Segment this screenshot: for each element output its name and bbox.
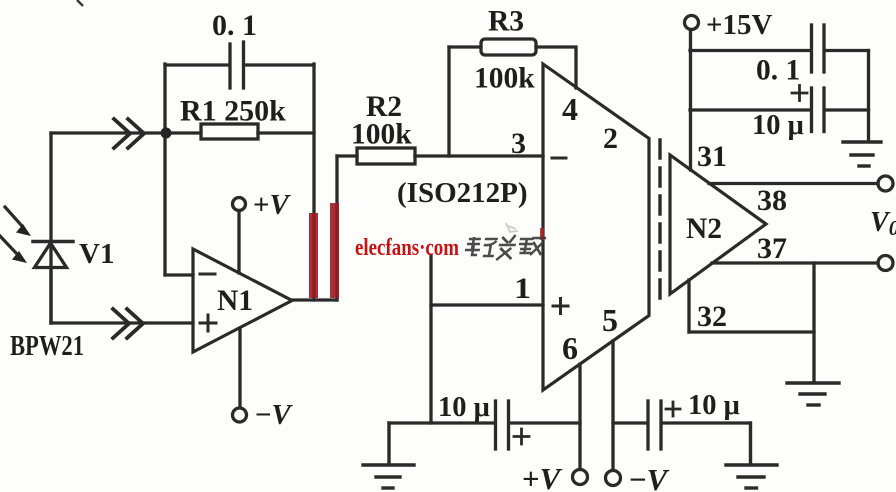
N1 plus sign — [200, 315, 216, 331]
wire: R2 right lead to ISO pin3 node — [415, 154, 543, 157]
cable chevrons on top input wire — [114, 119, 144, 148]
wire: decoupling ground riser — [867, 51, 870, 142]
svg-text:V0: V0 — [870, 207, 896, 240]
isolation amp output-side triangle N2 — [670, 155, 766, 294]
watermark red bar left — [309, 213, 318, 298]
svg-text:elecfans·com: elecfans·com — [355, 235, 459, 261]
wire: R1 right lead — [258, 131, 314, 134]
svg-text:10 μ: 10 μ — [688, 390, 740, 421]
svg-text:3: 3 — [511, 127, 526, 160]
ground symbol (input common) — [363, 423, 414, 488]
svg-text:BPW21: BPW21 — [10, 331, 84, 362]
wire: feedback loop top right segment — [244, 63, 314, 66]
scan speck top left — [77, 0, 83, 6]
capacitor C2 10u plates (left bottom) — [496, 401, 509, 449]
wire: feedback loop top left segment — [165, 63, 229, 66]
photodiode V1 triangle — [35, 243, 67, 268]
wire: inverting input horizontal — [165, 273, 193, 276]
capacitor C4 0.1 plates — [812, 25, 825, 72]
wire: +15V rail to C4 — [690, 49, 811, 52]
svg-text:38: 38 — [757, 184, 787, 217]
svg-text:V1: V1 — [79, 238, 114, 270]
resistor R1 body — [201, 124, 258, 139]
wire: R3 left vertical — [447, 47, 450, 156]
wire: loop left vertical to N1 inverting input — [163, 64, 166, 275]
ground symbol (output common) — [787, 383, 839, 405]
svg-text:R1 250k: R1 250k — [180, 95, 286, 128]
wire: output riser up to R2 — [335, 156, 338, 300]
light arrow 1 into V1 — [5, 207, 31, 236]
wire: R3 right vertical to ISO pin4 — [574, 49, 577, 88]
svg-text:6: 6 — [562, 330, 578, 366]
wire: R1 left lead — [166, 131, 201, 134]
terminal +V (ISO input side) — [573, 470, 588, 485]
svg-text:10 μ: 10 μ — [438, 392, 490, 423]
svg-text:N2: N2 — [686, 213, 722, 245]
light arrow 2 into V1 — [0, 236, 27, 263]
resistor R2 body — [357, 148, 415, 164]
terminal -V of N1 — [233, 408, 247, 422]
terminal output top — [878, 176, 893, 191]
wire: R2 left lead — [337, 154, 357, 157]
svg-text:−V: −V — [255, 399, 294, 431]
wire: pin32 horizontal — [689, 330, 814, 333]
wire: N1 bottom edge to -V — [238, 328, 241, 408]
svg-text:+V: +V — [253, 189, 292, 221]
wire: N1 output horizontal — [292, 298, 337, 301]
node junction dot at inverting input — [161, 128, 172, 139]
wire: left vertical down through photodiode — [49, 133, 52, 323]
wire: pin32 vertical from N2 bottom edge — [687, 280, 690, 332]
svg-text:5: 5 — [602, 302, 618, 338]
capacitor C3 10u plates (right bottom) — [648, 401, 661, 449]
wire: R3 right lead — [536, 45, 576, 48]
wire: pin6 vertical to +V terminal — [578, 364, 581, 469]
wire: C2 right plate to pin6 node — [509, 421, 580, 424]
wire: C4 right plate to ground riser — [826, 49, 869, 52]
wire: pin5 vertical to -V terminal — [611, 341, 614, 470]
photodiode V1 cathode bar — [33, 240, 73, 244]
wire: R3 left lead — [449, 45, 481, 48]
wire: pin1 ground branch vertical — [429, 256, 432, 423]
svg-text:N1: N1 — [217, 285, 253, 317]
terminal +15V — [685, 16, 699, 30]
svg-text:+V: +V — [522, 461, 563, 492]
svg-text:100k: 100k — [474, 63, 535, 95]
wire: to N1 non-inverting input — [51, 321, 193, 324]
capacitor C5 10u plates — [812, 88, 825, 132]
cable chevrons on bottom input wire — [113, 309, 143, 338]
svg-text:2: 2 — [603, 122, 618, 155]
wire: +V to N1 top edge — [237, 211, 240, 274]
C2 polarity plus — [514, 429, 529, 444]
svg-text:32: 32 — [697, 300, 727, 333]
ground symbol (decoupling) — [843, 142, 881, 166]
wire: input wire from photodiode cathode branch — [51, 131, 161, 134]
svg-text:R3: R3 — [488, 6, 524, 38]
wire: photodiode anode down — [49, 268, 52, 323]
svg-text:0. 1: 0. 1 — [756, 55, 800, 87]
svg-text:10 μ: 10 μ — [752, 110, 804, 141]
watermark gray smudge — [506, 223, 518, 232]
resistor R3 body — [481, 39, 536, 55]
ground symbol (C3) — [726, 423, 777, 488]
C3 polarity plus — [666, 402, 680, 416]
U1 plus sign — [553, 299, 568, 314]
svg-text:4: 4 — [562, 91, 578, 127]
terminal +V of N1 — [233, 198, 246, 211]
svg-text:0. 1: 0. 1 — [212, 9, 257, 42]
wire: pin37 ground riser — [812, 263, 815, 381]
capacitor C1 0.1 plates — [230, 42, 244, 88]
isolation amp U1 ISO212P input-side body — [543, 64, 649, 390]
svg-text:+15V: +15V — [706, 9, 773, 41]
terminal output bottom — [878, 256, 893, 271]
wire: C5 right plate to ground riser — [826, 108, 869, 111]
watermark chinese characters — [463, 235, 546, 260]
wire: pin37 to terminal — [712, 261, 878, 264]
wire: loop right vertical to N1 output — [312, 64, 315, 300]
wire: pin1 horizontal — [431, 303, 543, 306]
isolation barrier dashed line — [658, 140, 661, 306]
svg-text:37: 37 — [757, 232, 787, 265]
wire: pin5 node to C3 left plate — [613, 421, 647, 424]
terminal -V (ISO input side) — [606, 471, 621, 486]
svg-text:31: 31 — [697, 140, 727, 173]
wire: +15V rail to C5 — [690, 108, 811, 111]
wire: pin31 vertical from +15V — [689, 30, 692, 171]
svg-text:100k: 100k — [351, 119, 412, 151]
wire: ground to C2 left plate — [389, 421, 495, 424]
op-amp N1 triangle — [193, 249, 292, 352]
wire: C3 right plate to ground — [662, 421, 750, 424]
watermark red tick — [540, 228, 544, 240]
N1 minus sign — [200, 273, 215, 276]
watermark red bar right — [330, 203, 339, 298]
svg-text:−V: −V — [629, 462, 670, 492]
svg-text:(ISO212P): (ISO212P) — [397, 177, 528, 209]
svg-text:1: 1 — [514, 272, 531, 305]
U1 minus sign — [552, 157, 566, 160]
wire: pin38 output to terminal — [709, 182, 878, 185]
C5 polarity plus — [792, 86, 807, 101]
